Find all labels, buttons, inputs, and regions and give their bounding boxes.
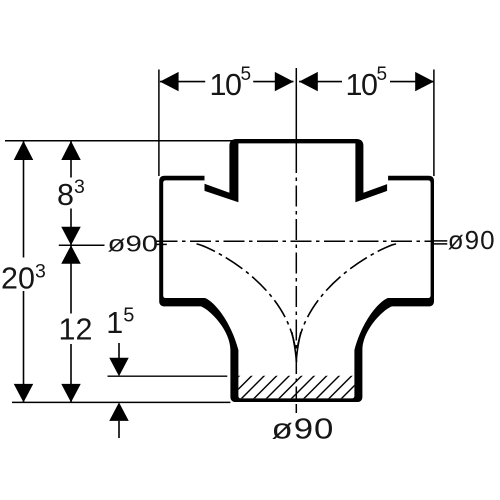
arrow center pointing right — [275, 72, 294, 91]
arrow right end — [415, 72, 434, 91]
right equals tick upper — [434, 240, 447, 242]
dimension 8^3 / 12 line — [70, 141, 72, 178]
vertical centerline dash-dot — [295, 152, 297, 400]
dimension 20^3 line — [23, 141, 25, 258]
left flow curve dash-dot — [197, 244, 297, 362]
left centerline leader — [59, 244, 105, 246]
dimension 1^5 — [118, 343, 120, 359]
left equals tick — [157, 243, 167, 245]
arrow 1^5 down — [109, 358, 129, 377]
svg-text:ø90: ø90 — [272, 412, 335, 445]
arrow 12 top — [61, 245, 81, 264]
right flow curve dash-dot — [296, 244, 396, 362]
fitting body silhouette — [159, 139, 434, 402]
extension line left (x=159) — [158, 70, 160, 177]
hatch: bottom socket insertion depth — [216, 373, 380, 399]
svg-text:ø90: ø90 — [448, 225, 496, 255]
arrow 12 bottom — [61, 384, 81, 403]
arrow 8^3 top — [61, 141, 81, 160]
right equals tick lower — [434, 243, 447, 245]
fitting inner cavity — [163, 143, 430, 398]
V apex solid left — [292, 332, 297, 362]
arrow 20^3 bottom — [14, 384, 34, 403]
vertical centerline solid top — [295, 68, 297, 152]
top extension line horizontal — [5, 140, 240, 142]
top dimension line — [160, 81, 205, 83]
horizontal centerline dash-dot — [157, 240, 435, 242]
arrow 1^5 up below line — [109, 402, 129, 421]
hatch-top extension line — [108, 375, 228, 377]
svg-text:12: 12 — [59, 313, 93, 347]
V apex solid right — [296, 332, 301, 362]
extension line right (x=434) — [433, 70, 435, 177]
arrow center pointing left — [299, 72, 318, 91]
bottom extension line horizontal — [12, 401, 230, 403]
arrow 8^3 bottom — [61, 227, 81, 246]
arrow left end — [160, 72, 179, 91]
svg-text:ø90: ø90 — [108, 230, 159, 257]
arrow 20^3 top — [14, 141, 34, 160]
